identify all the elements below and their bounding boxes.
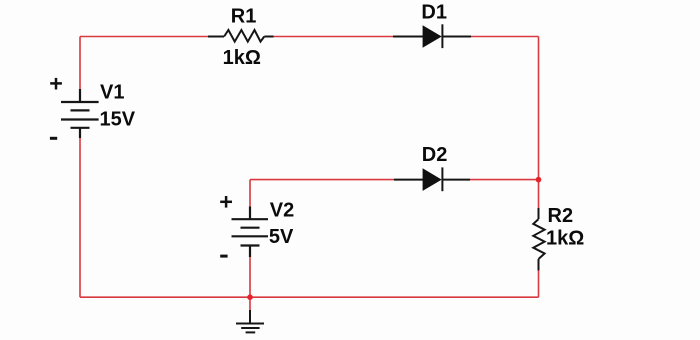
svg-text:V1: V1 bbox=[100, 81, 124, 103]
battery V1 bbox=[61, 89, 99, 138]
svg-text:1kΩ: 1kΩ bbox=[546, 227, 584, 249]
svg-text:V2: V2 bbox=[270, 200, 294, 222]
svg-text:D2: D2 bbox=[422, 144, 448, 166]
svg-text:15V: 15V bbox=[100, 109, 136, 131]
battery V2 bbox=[232, 207, 269, 258]
wire: V2 negative lead to node B bbox=[249, 257, 251, 297]
wire: bottom rail bbox=[80, 296, 539, 298]
node A junction dot bbox=[536, 177, 542, 183]
wire: V2 riser vertical bbox=[249, 180, 251, 207]
plus sign of V2 bbox=[220, 196, 232, 208]
minus sign of V1 bbox=[50, 137, 57, 140]
minus sign of V2 bbox=[220, 255, 227, 258]
wire: top rail, D1 to right corner bbox=[470, 36, 539, 38]
wire: left rail, top to V1 bbox=[79, 37, 81, 91]
svg-text:R1: R1 bbox=[231, 5, 257, 27]
wire: right rail, node A to R2 bbox=[538, 180, 540, 209]
wire: top rail, V1 to R1 bbox=[80, 36, 209, 38]
wire: top rail, R1 to D1 bbox=[273, 36, 395, 38]
node B junction dot bbox=[247, 294, 253, 300]
wire: ground stub below node B bbox=[249, 297, 251, 311]
diode D2 bbox=[394, 167, 470, 191]
wire: middle branch, D2 to node A bbox=[470, 179, 539, 181]
svg-text:5V: 5V bbox=[269, 226, 294, 248]
svg-text:1kΩ: 1kΩ bbox=[223, 47, 261, 69]
diode D1 bbox=[393, 24, 471, 48]
wire: right rail, top corner to node A bbox=[538, 37, 540, 180]
resistor R1 bbox=[208, 30, 274, 42]
resistor R2 bbox=[533, 208, 544, 270]
wire: middle branch, corner to D2 bbox=[250, 179, 394, 181]
wire: right rail, R2 to bottom corner bbox=[538, 270, 540, 297]
svg-text:R2: R2 bbox=[548, 205, 574, 227]
svg-text:D1: D1 bbox=[421, 2, 447, 24]
plus sign of V1 bbox=[50, 78, 62, 90]
ground bbox=[236, 310, 264, 332]
wire: left rail, V1 to bottom bbox=[79, 137, 81, 297]
